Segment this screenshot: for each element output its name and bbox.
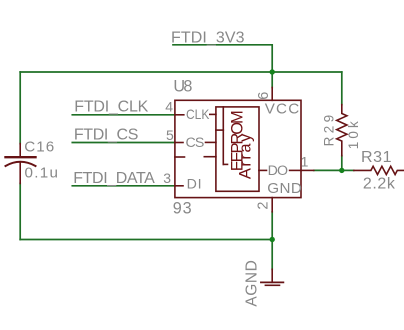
pin DI stub bbox=[175, 185, 183, 187]
svg-text:2: 2 bbox=[256, 202, 272, 210]
wire left vertical lower bbox=[19, 183, 21, 239]
pin CS stub bbox=[175, 142, 183, 144]
wire R29 top net bbox=[341, 72, 343, 105]
pin CLK stub bbox=[175, 114, 184, 116]
resistor R29 bbox=[337, 105, 347, 156]
junction top bbox=[270, 69, 275, 74]
svg-text:FTDI_CS: FTDI_CS bbox=[74, 127, 138, 144]
CLK inner connector bbox=[210, 113, 216, 115]
svg-text:CLK: CLK bbox=[186, 106, 210, 122]
svg-text:5: 5 bbox=[166, 127, 174, 143]
svg-text:2.2k: 2.2k bbox=[363, 176, 396, 193]
svg-text:FTDI_DATA: FTDI_DATA bbox=[73, 170, 155, 187]
junction bottom bbox=[270, 237, 275, 242]
svg-text:1: 1 bbox=[301, 153, 309, 169]
svg-text:R29: R29 bbox=[321, 115, 336, 147]
EEPROM array inner box bbox=[216, 107, 259, 191]
svg-text:GND: GND bbox=[267, 180, 302, 197]
pin 6 stub bbox=[271, 88, 273, 101]
wire pin6 from top bus bbox=[271, 72, 273, 88]
inner divider vertical bbox=[222, 107, 224, 164]
svg-text:C16: C16 bbox=[24, 138, 54, 155]
wire pin2 to bottom bus bbox=[271, 212, 273, 240]
wire R29 bottom net bbox=[341, 156, 343, 171]
svg-text:6: 6 bbox=[256, 92, 272, 100]
svg-text:R31: R31 bbox=[361, 149, 392, 166]
wire R31 left lead net bbox=[342, 169, 354, 171]
svg-text:CS: CS bbox=[186, 135, 205, 151]
DO text-to-edge connector bbox=[290, 169, 301, 171]
DO inner connector bbox=[259, 169, 267, 171]
capacitor C16 bbox=[6, 144, 36, 184]
resistor R31 bbox=[354, 166, 404, 174]
svg-text:U8: U8 bbox=[173, 78, 192, 96]
net FTDI_3V3 label wire bbox=[173, 45, 272, 72]
inner foot line bbox=[223, 163, 227, 165]
inner cell line bbox=[216, 129, 223, 131]
wire AGND drop bbox=[271, 240, 273, 270]
net FTDI_DATA wire bbox=[72, 185, 175, 187]
wire bottom bus bbox=[20, 239, 272, 241]
svg-text:3: 3 bbox=[163, 170, 171, 186]
svg-text:93: 93 bbox=[173, 199, 192, 217]
svg-text:10k: 10k bbox=[346, 121, 361, 149]
pin 1 DO stub bbox=[301, 169, 314, 171]
svg-text:DO: DO bbox=[268, 163, 289, 179]
wire left vertical upper bbox=[19, 72, 21, 144]
pin 2 stub bbox=[271, 198, 273, 212]
svg-text:DI: DI bbox=[187, 177, 202, 193]
svg-text:Array: Array bbox=[237, 133, 255, 179]
junction DO/R29/R31 bbox=[339, 168, 344, 173]
pin NC stub bbox=[175, 156, 185, 158]
net FTDI_CS wire bbox=[72, 142, 175, 144]
svg-text:FTDI_CLK: FTDI_CLK bbox=[74, 99, 148, 116]
svg-text:4: 4 bbox=[165, 99, 173, 115]
net FTDI_CLK wire bbox=[72, 114, 175, 116]
NC inner connector bbox=[204, 156, 216, 158]
svg-text:0.1u: 0.1u bbox=[25, 164, 59, 181]
svg-text:FTDI_3V3: FTDI_3V3 bbox=[171, 30, 245, 47]
svg-text:VCC: VCC bbox=[265, 100, 300, 117]
IC U8 body bbox=[175, 100, 301, 197]
CS inner connector bbox=[206, 141, 216, 143]
wire top bus bbox=[20, 71, 342, 73]
wire DO net bbox=[314, 169, 342, 171]
svg-text:AGND: AGND bbox=[243, 260, 260, 307]
ground AGND symbol bbox=[261, 269, 284, 285]
